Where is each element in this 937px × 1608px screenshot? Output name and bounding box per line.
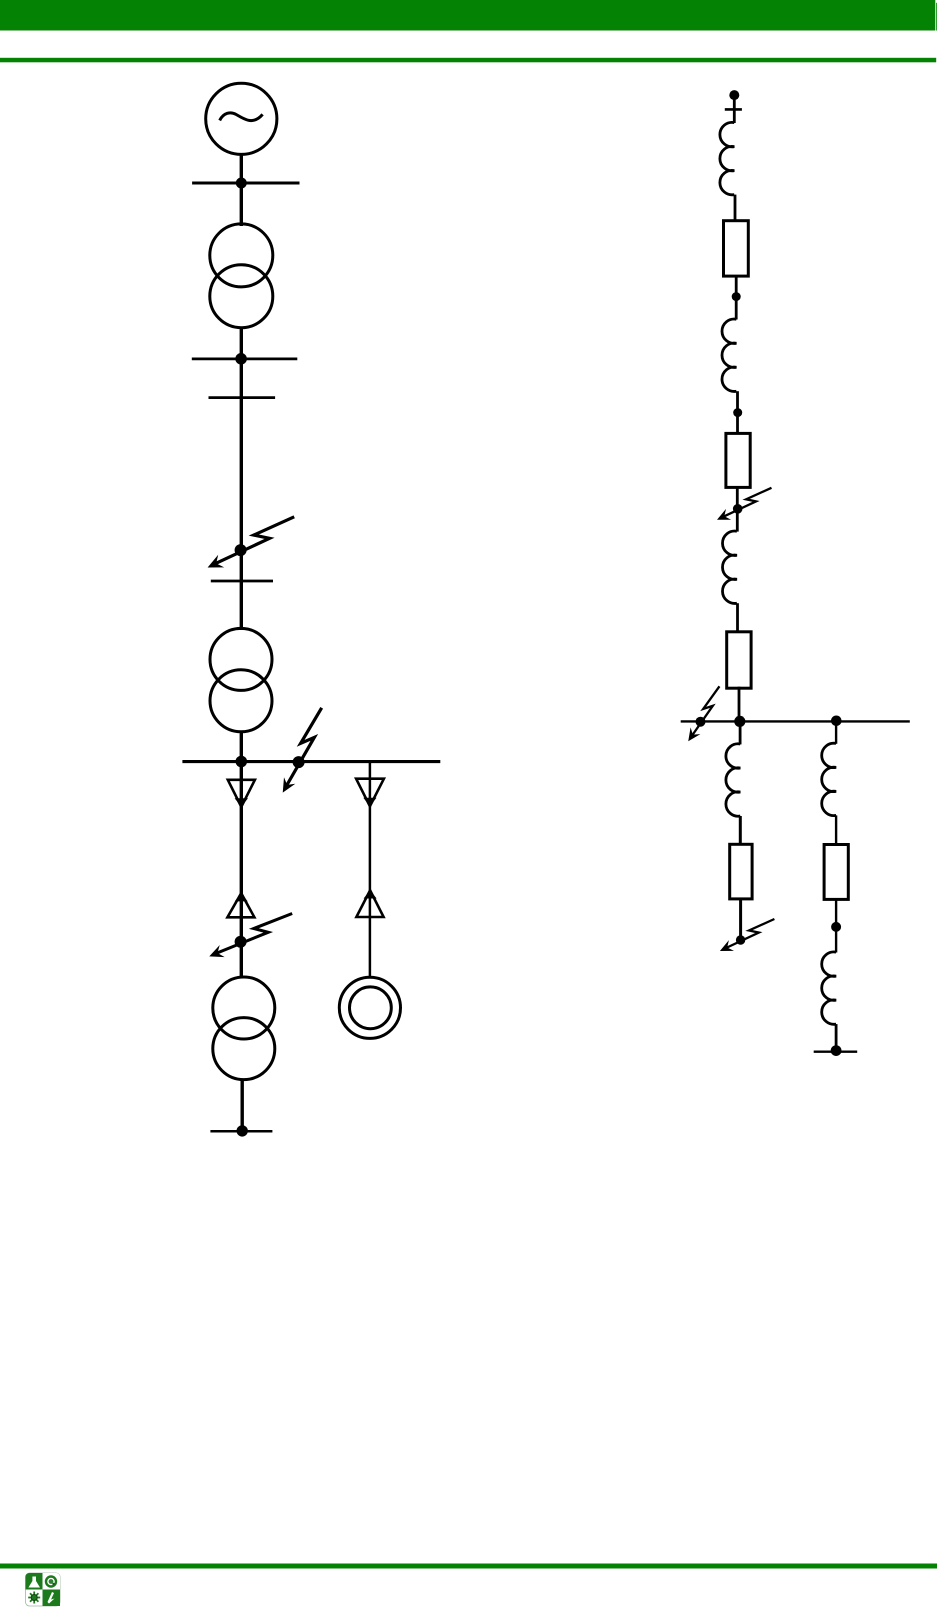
end terminal line [210, 1130, 272, 1133]
wire X3 to R3 [736, 603, 739, 632]
feeder 2 down arrow triangle [356, 779, 384, 807]
feeder 2 up arrow triangle [356, 890, 383, 917]
node dot busbar C left [236, 756, 248, 768]
busbar B [192, 358, 297, 361]
reactance X5 coil [822, 743, 836, 815]
transformer T2 [210, 628, 272, 731]
wire T1 to busbar B [240, 328, 243, 359]
feeder 1 wire (busbar C to transformer T3) [240, 762, 243, 977]
source terminal tick [725, 108, 742, 111]
wire R5 to X6 [835, 899, 837, 952]
node dot branch B mid [831, 922, 841, 932]
resistance R4 [730, 844, 752, 899]
busbar C (main LV bus) [182, 760, 440, 763]
disconnector tick 1 [209, 396, 276, 399]
node dot 2 [733, 408, 742, 417]
resistance R2 [726, 433, 750, 487]
wire busbar B down through fault K1 [240, 359, 243, 581]
wire X6 to terminal [835, 1024, 838, 1051]
reactance X6 coil [822, 952, 836, 1024]
wire R4 to fault K3' [739, 899, 742, 940]
header rule [0, 58, 936, 63]
node dot 1 [732, 292, 741, 301]
footer rule [0, 1564, 937, 1569]
feeder 2 down arrow apex fill [363, 798, 376, 807]
motor M double circle [339, 977, 400, 1038]
wire tick 2 to transformer T2 [240, 581, 243, 630]
wire R2 to X3 through fault K1' [736, 487, 739, 531]
fault K3' lightning arrow [720, 919, 775, 951]
wire R1 to X2 [735, 276, 738, 319]
reactance X4 coil [726, 744, 740, 816]
feeder 2 up arrow apex fill [364, 890, 377, 898]
feeder 1 down arrow triangle [228, 780, 255, 807]
fault K2' node dot [696, 717, 706, 727]
wire X5 to R5 [835, 815, 837, 844]
source node dot [729, 90, 739, 100]
wire X4 to R4 [739, 816, 742, 844]
junction dot branch A [734, 716, 745, 727]
reactance X3 coil [723, 531, 737, 603]
wire R3 to node line [738, 687, 741, 722]
branch B terminal line [814, 1051, 858, 1053]
feeder 1 up arrow apex fill [235, 893, 248, 901]
fault K2 node dot [293, 756, 305, 768]
node dot busbar B [235, 353, 247, 365]
generator G [206, 83, 277, 154]
header bar [0, 0, 935, 31]
feeder 1 down arrow apex fill [235, 798, 248, 807]
wire node to X5 [835, 721, 837, 743]
resistance R3 [727, 632, 751, 688]
wire busbar A to transformer T1 [240, 183, 243, 226]
busbar A [192, 182, 299, 185]
node distribution line [681, 720, 910, 722]
fault K3 lightning arrow [209, 909, 292, 960]
fault K2 lightning arrow [256, 708, 349, 793]
junction dot branch B [831, 716, 842, 727]
reactance X1 coil [720, 122, 734, 194]
end terminal node dot [237, 1125, 248, 1136]
node dot busbar A [236, 178, 247, 189]
resistance R1 [724, 221, 749, 276]
wire T2 to busbar C [240, 732, 243, 762]
wire source to reactance X1 [733, 95, 736, 123]
fault K1 lightning arrow [208, 517, 295, 568]
resistance R5 [824, 845, 848, 900]
disconnector tick 2 [211, 580, 273, 583]
wire X2 to R2 [736, 391, 739, 433]
fault K2' lightning arrow [672, 686, 735, 741]
wire X1 to resistance R1 [734, 195, 737, 221]
footer logo [26, 1573, 61, 1606]
fault K1' lightning arrow [717, 488, 772, 520]
transformer T1 [210, 224, 273, 328]
header bar right sliver [935, 3, 937, 31]
reactance X2 coil [722, 319, 736, 391]
feeder 1 up arrow triangle [227, 893, 254, 917]
fault K1' node dot [733, 504, 743, 514]
wire node to X4 [739, 721, 742, 744]
feeder 2 wire (busbar C to motor) [369, 762, 372, 977]
wire T3 to end terminal [240, 1080, 243, 1131]
transformer T3 [213, 977, 275, 1080]
fault K3 node dot [235, 936, 247, 948]
fault K3' node dot [736, 935, 745, 944]
wire generator to busbar A [240, 154, 243, 183]
fault K1 node dot [235, 544, 247, 556]
branch B terminal node dot [831, 1045, 842, 1056]
